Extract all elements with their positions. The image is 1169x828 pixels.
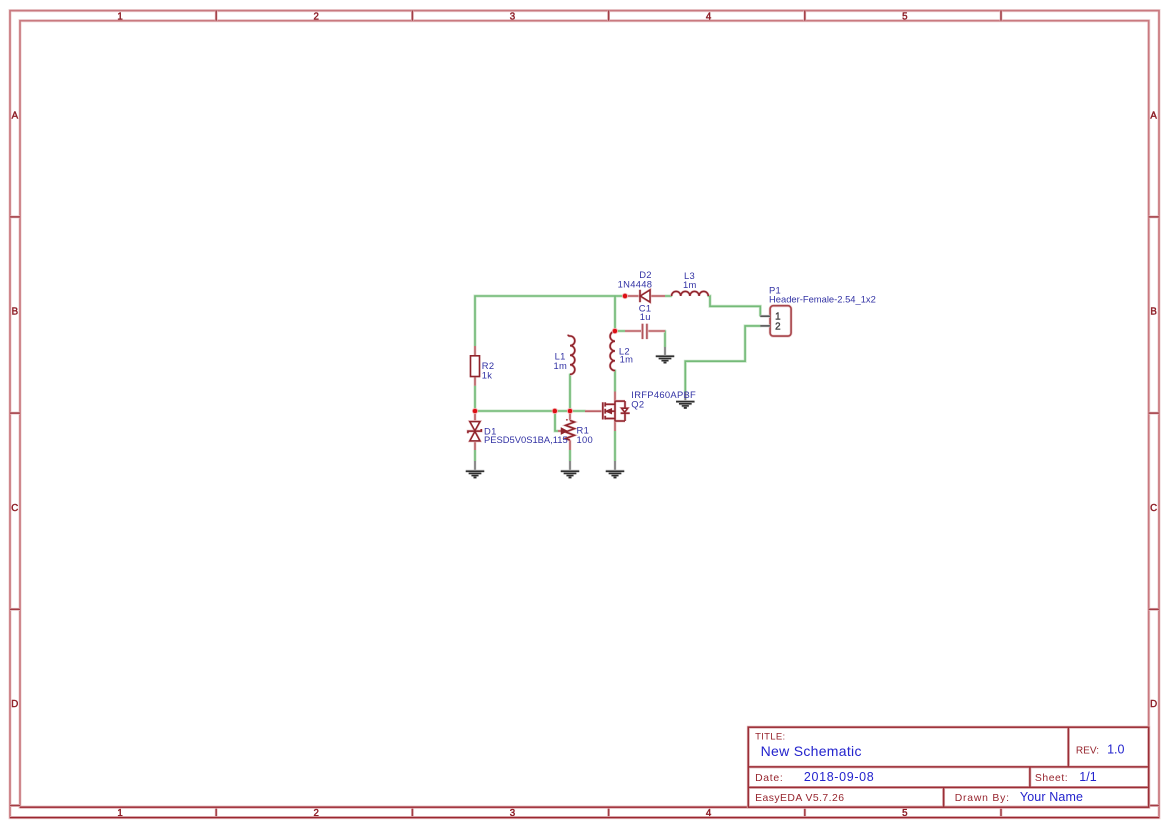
svg-text:PESD5V0S1BA,115: PESD5V0S1BA,115: [484, 434, 568, 445]
svg-text:C: C: [11, 503, 18, 514]
svg-text:Your Name: Your Name: [1020, 790, 1083, 804]
svg-text:D: D: [11, 699, 18, 710]
svg-text:2: 2: [314, 12, 319, 23]
svg-text:Date:: Date:: [755, 773, 783, 784]
svg-text:New Schematic: New Schematic: [761, 743, 862, 759]
svg-text:EasyEDA V5.7.26: EasyEDA V5.7.26: [755, 793, 844, 804]
svg-text:4: 4: [706, 12, 712, 23]
svg-text:Drawn By:: Drawn By:: [955, 793, 1010, 804]
svg-text:D: D: [1150, 699, 1157, 710]
svg-text:1m: 1m: [553, 360, 567, 371]
svg-text:1k: 1k: [482, 369, 493, 380]
svg-text:1N4448: 1N4448: [618, 279, 653, 290]
svg-text:1/1: 1/1: [1079, 770, 1096, 784]
svg-text:1.0: 1.0: [1107, 743, 1124, 757]
svg-text:1m: 1m: [683, 279, 697, 290]
svg-text:5: 5: [902, 12, 907, 23]
svg-text:Q2: Q2: [631, 398, 644, 409]
svg-text:1m: 1m: [620, 354, 634, 365]
svg-text:2018-09-08: 2018-09-08: [804, 770, 874, 784]
svg-text:Sheet:: Sheet:: [1035, 773, 1068, 784]
svg-text:TITLE:: TITLE:: [755, 731, 785, 742]
svg-text:3: 3: [510, 12, 515, 23]
svg-text:B: B: [1150, 307, 1156, 318]
svg-text:B: B: [12, 307, 18, 318]
svg-text:REV:: REV:: [1076, 746, 1099, 757]
svg-text:A: A: [12, 111, 19, 122]
svg-text:1: 1: [117, 12, 122, 23]
svg-text:Header-Female-2.54_1x2: Header-Female-2.54_1x2: [769, 294, 876, 305]
svg-text:A: A: [1150, 111, 1157, 122]
svg-text:C: C: [1150, 503, 1157, 514]
svg-text:100: 100: [577, 434, 594, 445]
svg-text:2: 2: [775, 321, 780, 332]
svg-text:1u: 1u: [640, 311, 651, 322]
